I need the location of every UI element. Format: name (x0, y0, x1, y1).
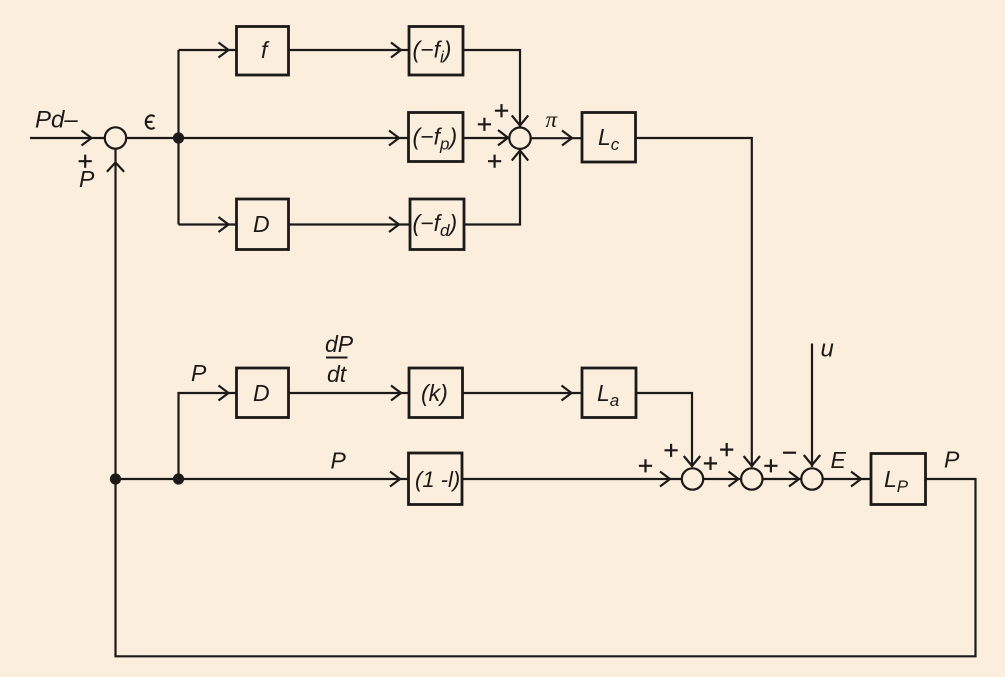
block (-fp) (409, 113, 464, 162)
wire S4 to S5 (763, 478, 802, 480)
arrowhead into f (219, 43, 229, 58)
label P output (944, 447, 960, 473)
wire D to block (k) (289, 392, 410, 394)
arrowhead into Lc (562, 131, 572, 146)
block label (1-l) (415, 467, 460, 492)
block label LP (884, 466, 909, 496)
summing junction S2 (509, 128, 530, 149)
arrowhead into D row4 (219, 386, 229, 401)
arrowhead up into S1 bottom (107, 163, 124, 172)
wire J1 branch to block D (179, 223, 237, 225)
arrowhead into S4 left (729, 472, 739, 487)
block label f (261, 37, 270, 63)
label plus left of S4 (704, 457, 717, 470)
label plus below-left of S2 (488, 155, 501, 168)
wire S5 to block LP (823, 478, 871, 480)
label plus at S1 (79, 155, 92, 168)
label minus top of S5 (u input) (783, 452, 796, 454)
arrowhead down into S4 (744, 456, 760, 466)
label u (821, 336, 834, 363)
arrowhead into S5 left (789, 472, 799, 487)
wire feedback riser to row4 D (179, 393, 237, 479)
block D row3 (237, 199, 289, 250)
wire (1-l) to S3 (462, 478, 682, 480)
block label (-fp) (413, 124, 458, 154)
block label (-fi) (413, 37, 452, 67)
node junction J2b (173, 473, 184, 484)
svg-text:(k): (k) (421, 380, 448, 406)
svg-text:P: P (191, 360, 207, 386)
arrowhead into (k) (391, 386, 401, 401)
svg-text:Pd–: Pd– (35, 107, 78, 134)
summing junction S3 (682, 468, 703, 489)
block label (-fd) (413, 210, 458, 240)
wire S1 to block (-fp) (126, 137, 408, 139)
node junction J1 (173, 132, 184, 143)
label plus left of S2 (478, 118, 491, 131)
label plus top-left of S2 (495, 104, 508, 117)
summing junction S1 (105, 127, 126, 148)
svg-text:D: D (253, 380, 270, 406)
svg-text:D: D (253, 211, 270, 237)
wire S2 to block Lc (531, 137, 582, 139)
wire (-fi) to summing junction S2 top (463, 50, 520, 127)
wire branch vertical at J1 (177, 50, 179, 225)
svg-text:(1 -l): (1 -l) (415, 467, 460, 492)
wire Lc to summing junction S4 (636, 138, 752, 467)
block (1-l) (409, 453, 463, 505)
svg-text:(−fd): (−fd) (413, 210, 458, 240)
block (k) (409, 368, 463, 418)
wire (-fd) to S2 bottom (464, 150, 520, 225)
label pi (546, 107, 559, 132)
label epsilon (145, 115, 154, 128)
svg-text:dt: dt (327, 361, 348, 387)
wire La to summing junction S3 (636, 393, 692, 467)
svg-text:dP: dP (325, 331, 354, 357)
wire feedback LP around bottom to S1 (116, 149, 976, 656)
arrowhead into (-fd) (389, 217, 399, 232)
wire S3 to S4 (703, 478, 740, 480)
block (-fi) (409, 27, 463, 76)
arrowhead into S1 (82, 131, 92, 146)
label plus top of S3 (665, 444, 678, 457)
arrowhead into (-fp) (389, 131, 399, 146)
svg-text:P: P (331, 448, 347, 474)
arrowhead into La (562, 386, 572, 401)
wire (-fp) to S2 (463, 137, 509, 139)
arrowhead into D (219, 217, 229, 232)
arrowhead into (1-l) (390, 472, 400, 487)
wire J1 to block f (179, 49, 237, 51)
label P below S1 (79, 166, 95, 192)
arrowhead into S2 left (498, 130, 508, 145)
svg-text:E: E (831, 447, 847, 473)
wire u input into S5 (811, 344, 813, 468)
arrowhead down into S5 from u (804, 455, 820, 465)
svg-text:P: P (944, 447, 960, 473)
wire row5 P to block (1-l) (116, 478, 409, 480)
summing junction S4 (741, 468, 762, 489)
wire input Pd to summing junction S1 (30, 137, 104, 139)
wire f to block (-fi) (289, 49, 410, 51)
svg-text:u: u (821, 336, 834, 363)
svg-text:π: π (546, 107, 559, 132)
block label D row4 (253, 380, 270, 406)
block LP (871, 454, 926, 505)
wire (k) to block La (463, 392, 583, 394)
block label La (597, 380, 619, 410)
label plus top of S4 (720, 443, 733, 456)
block label D row3 (253, 211, 270, 237)
arrowhead into LP (851, 472, 861, 487)
label P above row4 riser (191, 360, 207, 386)
label plus left of S5 (764, 459, 777, 472)
label E (831, 447, 847, 473)
label Pd- (35, 107, 78, 134)
block label Lc (598, 124, 620, 154)
block La (582, 368, 636, 418)
label dP/dt fraction (325, 331, 354, 387)
arrowhead up into S2 (512, 151, 528, 161)
label P above row5 (331, 448, 347, 474)
label plus left of S3 (639, 459, 652, 472)
svg-text:P: P (79, 166, 95, 192)
block f (237, 27, 289, 76)
svg-text:(−fp): (−fp) (413, 124, 458, 154)
block Lc (582, 113, 636, 163)
block D row4 (237, 368, 289, 418)
svg-text:(−fi): (−fi) (413, 37, 452, 67)
block label (k) (421, 380, 448, 406)
arrowhead down into S2 (512, 115, 528, 125)
arrowhead into S3 left (660, 472, 670, 487)
summing junction S5 (801, 468, 822, 489)
wire D to block (-fd) (289, 223, 411, 225)
node junction J2a (110, 473, 121, 484)
arrowhead into (-fi) (391, 43, 401, 58)
block (-fd) (410, 199, 464, 250)
arrowhead down into S3 (684, 456, 700, 466)
